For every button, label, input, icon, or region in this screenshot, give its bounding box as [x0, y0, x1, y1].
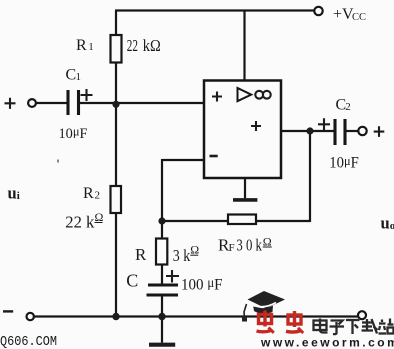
- svg-text:Ω: Ω: [190, 242, 199, 256]
- svg-text:kΩ: kΩ: [143, 36, 161, 55]
- svg-text:R: R: [83, 185, 94, 202]
- svg-text:CC: CC: [352, 12, 366, 23]
- svg-text:2: 2: [345, 101, 351, 113]
- svg-text:2: 2: [95, 190, 101, 202]
- svg-text:1: 1: [88, 41, 94, 53]
- svg-text:R: R: [135, 245, 147, 264]
- svg-text:Q606.COM: Q606.COM: [0, 334, 57, 349]
- svg-text:3 k: 3 k: [173, 246, 191, 265]
- svg-text:3 0 k: 3 0 k: [236, 235, 262, 254]
- svg-text:R: R: [76, 37, 87, 54]
- svg-text:22 k: 22 k: [65, 212, 95, 231]
- svg-text:Ω: Ω: [95, 210, 104, 224]
- svg-text:www.eeworm.com: www.eeworm.com: [260, 335, 394, 349]
- svg-text:F: F: [229, 242, 235, 254]
- svg-text:Ω: Ω: [263, 234, 272, 248]
- svg-text:22: 22: [127, 36, 138, 55]
- svg-text:100 μF: 100 μF: [181, 275, 223, 294]
- svg-text:+V: +V: [333, 6, 354, 23]
- svg-text:C: C: [126, 270, 138, 290]
- svg-text:1: 1: [76, 71, 82, 83]
